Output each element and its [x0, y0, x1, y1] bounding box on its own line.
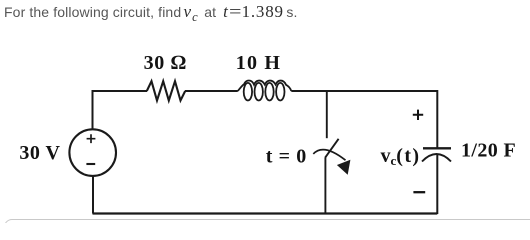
wire: top right segment from inductor to switch node	[291, 90, 327, 92]
switch SW t=0	[313, 139, 350, 175]
label t = 0	[266, 146, 307, 168]
svg-text:t = 0: t = 0	[266, 146, 307, 168]
svg-text:30 Ω: 30 Ω	[144, 52, 187, 74]
wire: top segment from switch node to top-right corner	[326, 90, 437, 92]
svg-text:1/20 F: 1/20 F	[461, 140, 516, 162]
svg-text:10 H: 10 H	[236, 52, 281, 74]
label 10 H	[236, 52, 281, 74]
wire: left vertical above source	[92, 90, 94, 130]
resistor R 30ohm	[147, 81, 185, 100]
wire: top-left horizontal segment	[92, 90, 148, 92]
capacitor C 1/20 F	[422, 148, 451, 161]
wire: right vertical below capacitor	[436, 154, 438, 215]
wire: top middle segment between resistor and inductor	[185, 90, 238, 92]
wire: left vertical below source	[92, 176, 94, 214]
plus sign of capacitor	[413, 110, 423, 120]
wire: switch branch lower	[324, 157, 326, 214]
wire: bottom horizontal	[93, 212, 438, 214]
svg-text:30 V: 30 V	[19, 142, 60, 164]
label vc(t)	[381, 145, 421, 168]
wire: switch branch upper	[326, 90, 328, 138]
voltage source VS 30 V	[69, 129, 116, 176]
label 30 ohm	[144, 52, 187, 74]
wire: right vertical above capacitor	[436, 90, 438, 149]
minus sign of capacitor	[413, 191, 425, 193]
question text	[4, 2, 297, 25]
label 30 V	[19, 142, 60, 164]
inductor L 10 H	[238, 81, 291, 101]
answer box top edge	[4, 219, 530, 240]
label 1/20 F	[461, 140, 516, 162]
svg-text:vc(t): vc(t)	[381, 145, 421, 168]
